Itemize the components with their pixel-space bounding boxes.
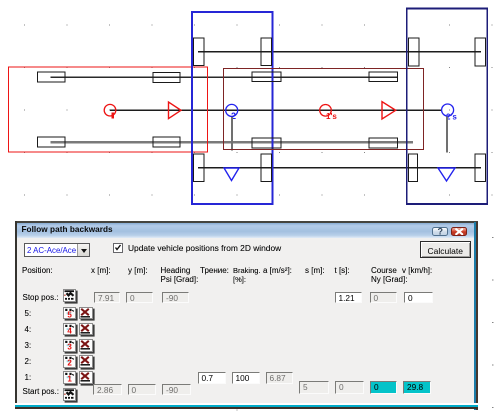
help button: [432, 227, 448, 237]
node marker circle 1s: [320, 105, 332, 117]
vehicle 1s wheel FR: [369, 72, 398, 82]
vehicle 1s wheel RR: [369, 138, 398, 148]
vehicle 2 wheel RL: [194, 154, 205, 182]
combo arrow button: [77, 244, 89, 256]
vehicle 1s wheel FL: [252, 72, 281, 82]
vehicle 1s wheel RL: [252, 138, 281, 148]
svg-text:1's: 1's: [326, 112, 337, 121]
vehicle 1 wheel RL: [38, 137, 66, 147]
vehicle 2 wheel FL: [194, 38, 205, 66]
svg-text:1: 1: [67, 375, 72, 382]
vehicle 1 wheel FL: [38, 72, 66, 82]
wire bottom wheel line gray (red vehicles): [51, 141, 414, 143]
dialog border right: [474, 222, 476, 411]
icon buttons column 1: [15, 220, 478, 222]
arrow triangle vehicle 1s: [382, 102, 396, 119]
dialog window Follow path backwards: [15, 221, 478, 410]
svg-text:2: 2: [67, 359, 72, 366]
delete buttons column 2: [15, 220, 478, 222]
arrow triangle vehicle 2s: [438, 168, 455, 181]
header labels: [22, 266, 53, 275]
wire center path line: [110, 109, 442, 111]
vehicle 1s outline: [224, 69, 424, 150]
svg-text:?: ?: [438, 227, 444, 235]
textboxes start pos: [93, 384, 122, 395]
wire stem vehicle 2: [231, 117, 233, 151]
vehicle 2 wheel RR: [261, 154, 272, 182]
svg-text:5: 5: [67, 310, 72, 317]
wire bottom axle line (blue vehicles): [198, 167, 481, 169]
wire stem vehicle 2s: [446, 117, 448, 153]
vehicle 1 wheel FR: [153, 73, 180, 83]
node marker circle 1: [104, 104, 116, 116]
arrow triangle vehicle 2: [224, 168, 239, 181]
label 1: [111, 112, 114, 118]
dialog border top: [15, 221, 478, 223]
title text: [22, 225, 113, 234]
vehicle 2s wheel RR: [475, 154, 486, 182]
vehicle 2s wheel RL: [409, 154, 418, 182]
node marker circle 2s: [442, 104, 454, 116]
textboxes start row: [299, 381, 329, 394]
svg-text:3: 3: [67, 343, 72, 350]
close button: [451, 227, 468, 237]
combo box vehicle selector: [24, 243, 90, 257]
vehicle 1 wheel RR: [153, 137, 180, 147]
svg-text:4: 4: [67, 326, 72, 333]
vehicle 2 outline: [192, 12, 273, 204]
textboxes row 1: [198, 372, 226, 384]
row labels: [23, 293, 59, 302]
vehicle 2 wheel FR: [261, 38, 272, 66]
wire top wheel line (red vehicles): [51, 76, 399, 78]
textboxes stop row: [94, 292, 120, 303]
dialog border bottom: [15, 403, 478, 405]
button Calculate: [420, 241, 471, 258]
vehicle 2s wheel FR: [475, 38, 486, 66]
arrow triangle vehicle 1: [169, 102, 182, 119]
checkbox update positions: [113, 243, 123, 253]
title bar: [17, 223, 475, 238]
wire top axle line (blue vehicles): [198, 51, 481, 53]
dialog border left: [15, 221, 17, 410]
node marker circle 2: [226, 104, 238, 116]
vehicle 2s outline: [407, 9, 488, 205]
vehicle 2s wheel FL: [409, 38, 420, 66]
vehicle 1 outline: [9, 67, 208, 152]
